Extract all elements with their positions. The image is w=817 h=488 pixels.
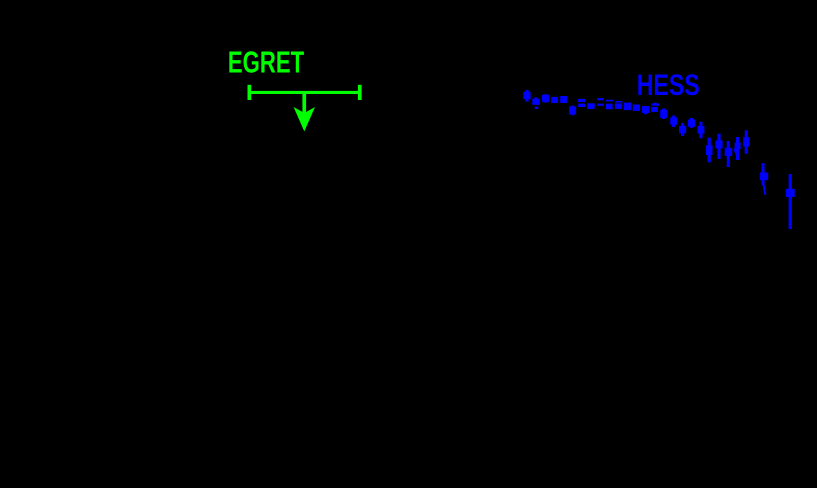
EGRET bar left cap [248, 85, 252, 100]
HESS point 13 [633, 105, 640, 111]
HESS point 16 [662, 109, 665, 120]
HESS point 15 [654, 103, 657, 105]
HESS point 27 [789, 174, 792, 229]
HESS point 24 [736, 137, 739, 160]
svg-text:EGRET: EGRET [228, 46, 304, 80]
svg-text:HESS: HESS [637, 70, 700, 102]
HESS point 9 (pair of dashes) [597, 98, 604, 100]
HESS point 14 [644, 106, 647, 114]
HESS point 6 [571, 106, 574, 116]
EGRET arrow shaft [302, 93, 306, 114]
HESS point 22 [717, 134, 720, 159]
HESS point 17 [672, 116, 675, 128]
HESS point 1 [525, 90, 528, 102]
HESS point 18 [681, 123, 684, 136]
HESS point 21 [708, 138, 711, 163]
EGRET arrow head [294, 107, 315, 131]
HESS point 5 [560, 96, 567, 103]
HESS point 7 (pair of dashes) [578, 99, 585, 102]
HESS point 12 [624, 103, 632, 111]
HESS point 10 [606, 100, 613, 102]
HESS point 2 [534, 97, 537, 99]
HESS point 20 [699, 122, 702, 139]
HESS point 8 [587, 103, 595, 109]
HESS point 4 [551, 97, 558, 103]
HESS point 19 [690, 118, 693, 128]
EGRET upper-limit horizontal bar [248, 91, 362, 94]
HESS point 3 [544, 94, 547, 102]
HESS point 26 [761, 163, 764, 185]
HESS point 23 [727, 141, 730, 167]
EGRET bar right cap [358, 85, 362, 100]
HESS point 25 [745, 130, 748, 154]
HESS point 11 [615, 101, 622, 103]
